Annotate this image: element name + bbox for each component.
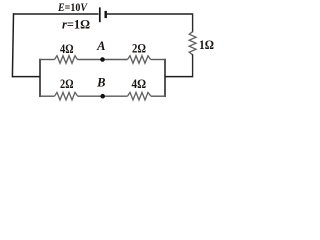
node A dot (100, 57, 105, 62)
wire right junction horizontal (165, 76, 193, 78)
svg-text:A: A (96, 39, 105, 53)
svg-text:r=1Ω: r=1Ω (62, 18, 90, 32)
wire top-right from battery to right corner (107, 13, 193, 15)
svg-text:E=10V: E=10V (57, 0, 88, 14)
resistor 2 ohm upper zigzag (128, 56, 151, 64)
node B dot (100, 94, 105, 99)
wire upper branch middle (77, 59, 127, 61)
resistor 2 ohm lower zigzag (55, 92, 78, 100)
resistor 4 ohm lower zigzag (128, 92, 151, 100)
wire left split bar (39, 60, 41, 97)
svg-text:4Ω: 4Ω (132, 77, 147, 91)
wire upper branch right lead (151, 59, 165, 61)
wire top-left from battery to left corner (13, 13, 99, 15)
resistor 1 ohm vertical zigzag (189, 32, 196, 55)
svg-text:B: B (96, 75, 105, 89)
svg-text:4Ω: 4Ω (60, 42, 74, 56)
wire lower branch middle (78, 95, 128, 97)
wire left feed horizontal (12, 76, 40, 78)
svg-text:2Ω: 2Ω (60, 77, 74, 91)
svg-text:2Ω: 2Ω (132, 42, 146, 56)
wire right vertical lower lead (192, 55, 194, 77)
wire right merge bar (164, 60, 166, 97)
svg-text:1Ω: 1Ω (199, 38, 214, 52)
wire lower branch right lead (151, 95, 165, 97)
wire lower branch left lead (40, 95, 55, 97)
wire left vertical (12, 14, 13, 77)
wire upper branch left lead (40, 59, 55, 61)
battery E long plate (99, 7, 101, 22)
wire right vertical upper lead (192, 14, 194, 32)
battery E short plate (104, 11, 106, 18)
resistor 4 ohm upper zigzag (55, 56, 78, 64)
